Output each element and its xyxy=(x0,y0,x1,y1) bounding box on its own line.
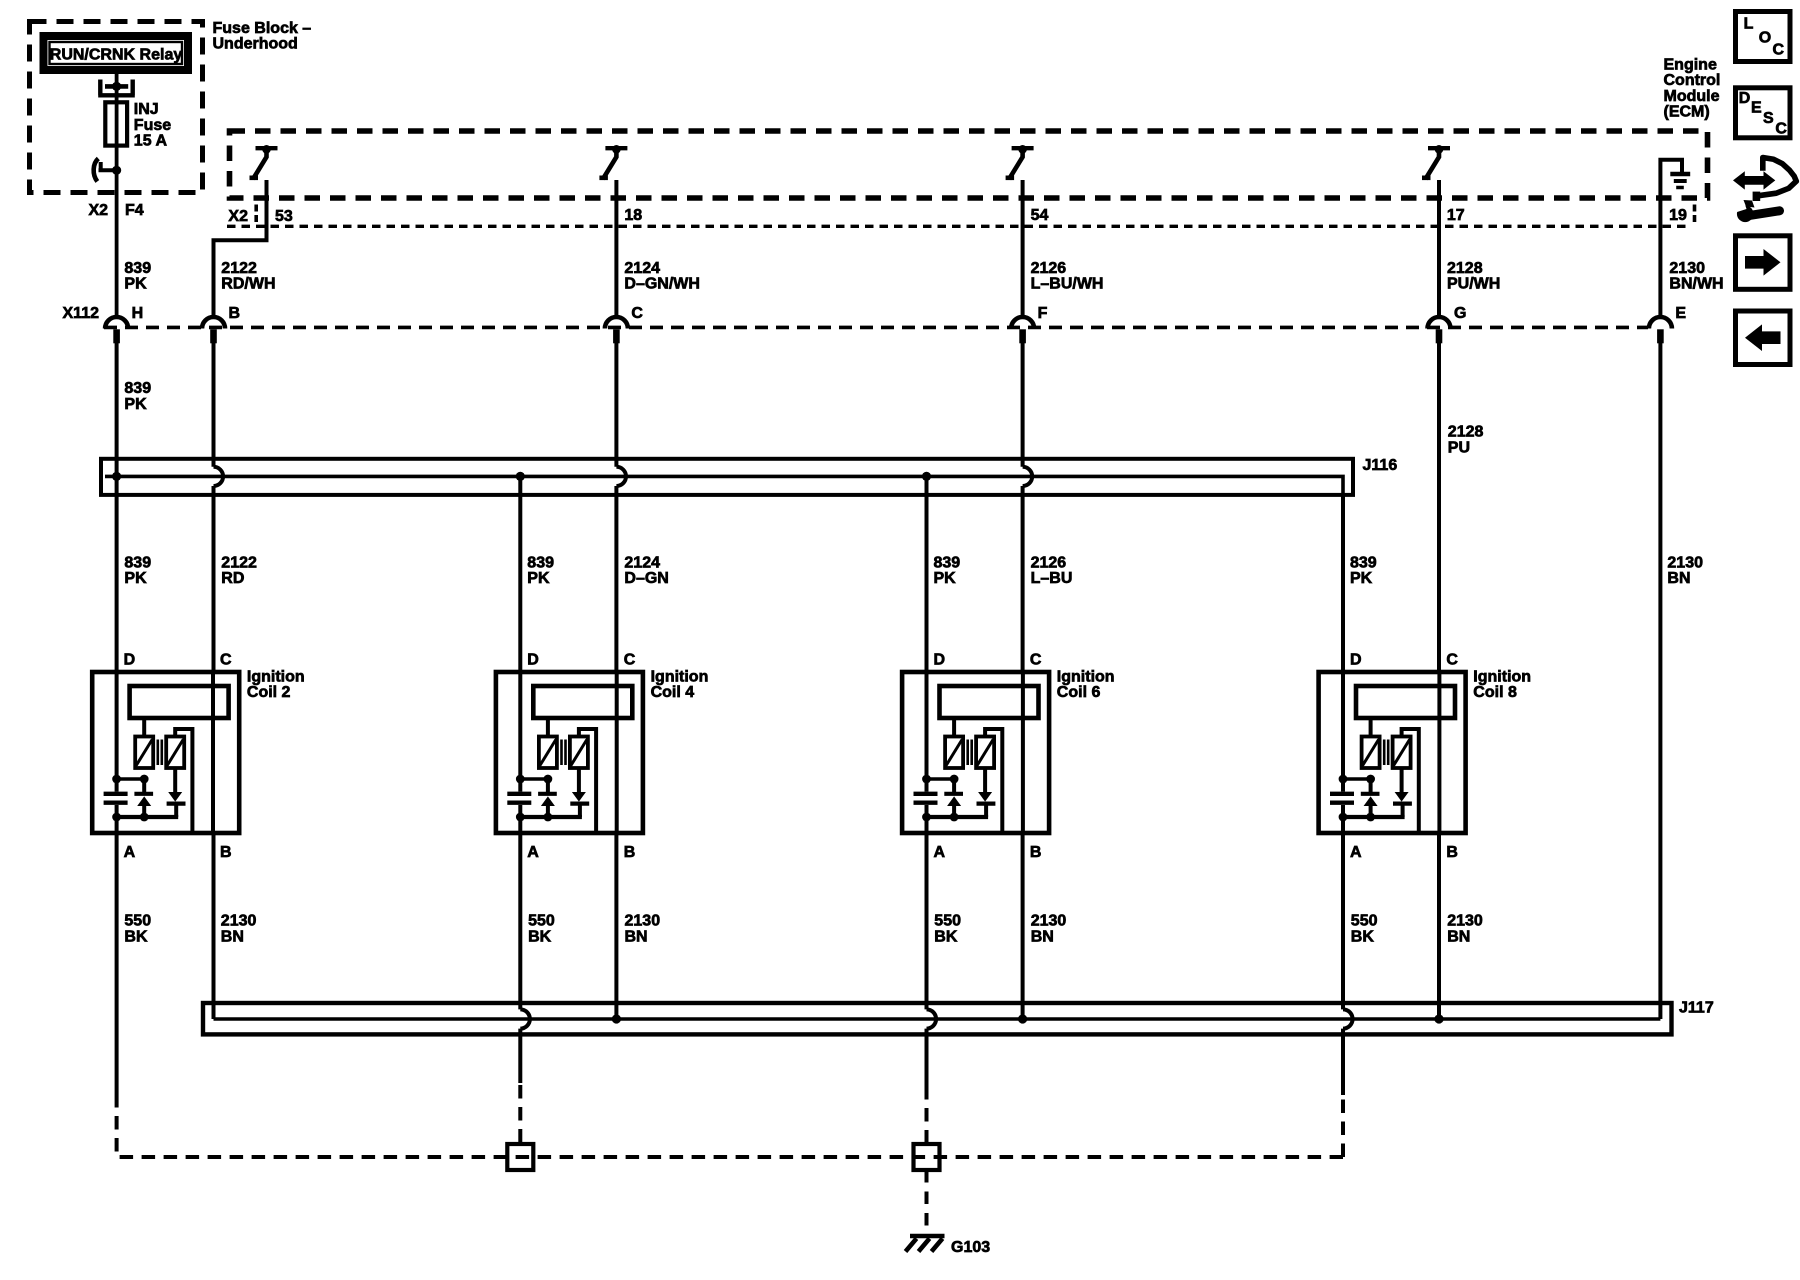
wire hop over splice J117 xyxy=(520,1009,530,1028)
splice square at coil4 ground xyxy=(507,1144,533,1170)
coil 4 diode 1 xyxy=(546,779,550,794)
Engine Control Module (ECM) dashed box xyxy=(230,131,1708,198)
svg-text:BK: BK xyxy=(124,929,148,946)
coil 2 capacitor xyxy=(104,794,128,803)
svg-text:839: 839 xyxy=(124,260,151,277)
connector separator dashes pin 19 xyxy=(1693,205,1697,223)
svg-text:Ignition: Ignition xyxy=(247,669,305,686)
junction dot coil4 tap at J116 xyxy=(516,472,525,481)
svg-text:PK: PK xyxy=(934,570,957,587)
wire fuse block to X112 pin H xyxy=(115,170,119,317)
coil 8 C-B wire through box xyxy=(1437,672,1441,833)
svg-text:2130: 2130 xyxy=(1669,260,1705,277)
svg-text:X112: X112 xyxy=(63,305,100,322)
svg-text:B: B xyxy=(1030,844,1042,861)
svg-text:INJ: INJ xyxy=(134,101,159,118)
coil 8 diode 1 xyxy=(1369,779,1373,794)
svg-text:Coil 6: Coil 6 xyxy=(1057,684,1101,701)
coil 4 secondary output route xyxy=(579,729,596,831)
svg-text:G: G xyxy=(1454,305,1466,322)
coil 2 diode 2 xyxy=(173,768,177,792)
wire 2124 D-GN/WH from pin 18 xyxy=(614,180,618,317)
svg-text:2126: 2126 xyxy=(1031,555,1067,572)
svg-text:F4: F4 xyxy=(125,202,144,219)
icon box left arrow xyxy=(1736,311,1791,365)
coil 4 capacitor xyxy=(507,794,531,803)
svg-text:C: C xyxy=(1773,42,1785,59)
svg-text:PU/WH: PU/WH xyxy=(1447,276,1500,293)
svg-text:BK: BK xyxy=(1351,929,1375,946)
svg-text:BK: BK xyxy=(528,929,552,946)
wire 2126 L-BU/WH from pin 54 xyxy=(1021,180,1025,317)
coil 6 C-B wire through box xyxy=(1021,672,1025,833)
Fuse Block - Underhood dashed box xyxy=(30,22,203,193)
svg-text:839: 839 xyxy=(527,555,554,572)
coil 8 D wire through box xyxy=(1341,672,1345,833)
coil 2 D wire through box xyxy=(115,672,119,833)
svg-text:BN/WH: BN/WH xyxy=(1669,276,1723,293)
coil 2 junction wire bottom xyxy=(115,815,179,819)
X112 connector terminal E xyxy=(1649,317,1672,329)
wire 839 PK J116 tap to coil4 D xyxy=(518,476,522,672)
svg-text:18: 18 xyxy=(624,207,642,224)
svg-text:Coil 4: Coil 4 xyxy=(651,684,695,701)
svg-text:PU: PU xyxy=(1448,440,1470,457)
svg-text:54: 54 xyxy=(1031,207,1049,224)
coil 6 capacitor xyxy=(914,794,938,803)
wire 839 PK pin H to splice J116 xyxy=(115,343,119,476)
coil 6 junction wire top xyxy=(927,777,955,781)
svg-text:839: 839 xyxy=(124,555,151,572)
splice J116 bus outline xyxy=(101,459,1353,495)
svg-text:Coil 2: Coil 2 xyxy=(247,684,291,701)
svg-text:Ignition: Ignition xyxy=(1473,669,1531,686)
svg-text:Control: Control xyxy=(1664,72,1721,89)
coil 6 secondary winding xyxy=(976,737,994,769)
svg-text:Fuse: Fuse xyxy=(134,117,171,134)
svg-text:PK: PK xyxy=(124,276,147,293)
wire 550 BK coil2 A down xyxy=(115,833,119,1094)
wire 2126 L-BU pin F down across J116 xyxy=(1021,343,1025,672)
coil 2 C-B wire through box xyxy=(211,672,215,833)
coil 4 module block xyxy=(533,686,632,718)
svg-text:D–GN/WH: D–GN/WH xyxy=(624,276,700,293)
coil 6 module block xyxy=(940,686,1039,718)
svg-text:839: 839 xyxy=(934,555,961,572)
svg-text:2124: 2124 xyxy=(624,555,660,572)
coil 6 diode 1 xyxy=(952,779,956,794)
svg-text:F: F xyxy=(1038,305,1048,322)
icon routing clip xyxy=(1755,158,1796,197)
svg-text:17: 17 xyxy=(1447,207,1465,224)
svg-text:S: S xyxy=(1763,110,1774,127)
coil 8 junction wire top xyxy=(1343,777,1371,781)
junction dot coil6 B at J117 xyxy=(1018,1014,1027,1023)
svg-text:2124: 2124 xyxy=(624,260,660,277)
svg-text:Underhood: Underhood xyxy=(213,36,298,53)
coil 2 module block xyxy=(130,686,229,718)
svg-text:D–GN: D–GN xyxy=(624,570,668,587)
wire 2130 BN/WH from pin 19 xyxy=(1658,198,1662,317)
svg-text:PK: PK xyxy=(124,396,147,413)
wire 2122 RD/WH from pin 53 xyxy=(214,180,267,317)
svg-text:2128: 2128 xyxy=(1448,424,1484,441)
coil 2 diode 1 xyxy=(142,779,146,794)
svg-text:19: 19 xyxy=(1669,207,1687,224)
svg-text:Ignition: Ignition xyxy=(1057,669,1115,686)
wire fuse to relay contact xyxy=(115,145,119,170)
wire hop over splice J116 xyxy=(1023,467,1033,486)
svg-text:J117: J117 xyxy=(1679,1000,1714,1017)
coil 2 core bars xyxy=(158,740,162,766)
icon box right arrow xyxy=(1736,236,1791,289)
coil 8 junction wire bottom xyxy=(1341,815,1405,819)
ignition coil 8 outer box xyxy=(1319,672,1466,833)
wire 2130 BN coil4 B to splice J117 xyxy=(614,833,618,1019)
ignition coil 6 outer box xyxy=(902,672,1049,833)
icon wrench xyxy=(1751,211,1780,216)
splice square at coil6 ground xyxy=(914,1144,940,1170)
coil 6 diode 2 xyxy=(983,768,987,792)
coil 8 core bars xyxy=(1384,740,1388,766)
wire relay to fuse xyxy=(115,74,119,102)
connector separator dashes pin 53 xyxy=(254,205,258,223)
svg-text:L–BU/WH: L–BU/WH xyxy=(1031,276,1104,293)
svg-text:A: A xyxy=(124,844,136,861)
coil 2 primary winding xyxy=(135,737,153,769)
svg-text:B: B xyxy=(220,844,232,861)
wire 2128 PU pin G down to coil 8 xyxy=(1437,343,1441,672)
svg-text:Fuse Block –: Fuse Block – xyxy=(213,20,312,37)
svg-text:Engine: Engine xyxy=(1664,56,1717,73)
svg-text:J116: J116 xyxy=(1363,457,1398,474)
wire hop over splice J117 xyxy=(927,1009,937,1028)
svg-text:2122: 2122 xyxy=(221,555,257,572)
coil 8 module block xyxy=(1356,686,1455,718)
icon box LOC xyxy=(1736,12,1791,62)
coil 4 C-B wire through box xyxy=(615,672,619,833)
svg-text:2130: 2130 xyxy=(625,913,661,930)
ECM driver switch for pin 18 xyxy=(605,146,627,150)
coil 6 D wire through box xyxy=(925,672,929,833)
coil 2 secondary winding xyxy=(166,737,184,769)
splice J116 wire xyxy=(105,476,1343,495)
junction dot H/839 at J116 xyxy=(112,472,121,481)
svg-text:BN: BN xyxy=(221,929,244,946)
coil 4 wire module to primary winding xyxy=(546,718,550,737)
X112 connector terminal C xyxy=(605,317,628,329)
wire 550 BK coil6 A down across J117 xyxy=(925,833,929,1086)
ECM driver switch for pin 17 xyxy=(1428,146,1450,150)
coil 4 primary winding xyxy=(539,737,557,769)
svg-text:839: 839 xyxy=(1350,555,1377,572)
wire 2122 RD pin B down across J116 xyxy=(212,343,216,672)
svg-text:839: 839 xyxy=(124,380,151,397)
svg-text:PK: PK xyxy=(527,570,550,587)
svg-text:(ECM): (ECM) xyxy=(1664,104,1710,121)
wire hop over splice J117 xyxy=(1343,1009,1353,1028)
svg-text:C: C xyxy=(1030,652,1042,669)
svg-text:B: B xyxy=(624,844,636,861)
svg-text:550: 550 xyxy=(1351,913,1378,930)
relay contact symbol xyxy=(112,166,121,175)
coil 8 wire module to primary winding xyxy=(1369,718,1373,737)
wire 2130 BN coil8 B to splice J117 xyxy=(1437,833,1441,1019)
svg-text:A: A xyxy=(527,844,539,861)
svg-text:C: C xyxy=(220,652,232,669)
svg-text:Ignition: Ignition xyxy=(651,669,709,686)
wire 550 BK coil8 A down across J117 xyxy=(1341,833,1345,1095)
svg-text:E: E xyxy=(1675,305,1686,322)
ignition coil 4 outer box xyxy=(496,672,643,833)
svg-text:D: D xyxy=(1350,652,1362,669)
svg-text:2128: 2128 xyxy=(1447,260,1483,277)
svg-text:D: D xyxy=(124,652,136,669)
fuse F4 INJ Fuse 15 A xyxy=(98,80,135,96)
coil 2 wire module to primary winding xyxy=(142,718,146,737)
icon box DESC xyxy=(1736,88,1791,138)
svg-text:2130: 2130 xyxy=(221,913,257,930)
svg-text:BN: BN xyxy=(1447,929,1470,946)
wire 2130 BN pin E down to splice J117 xyxy=(1658,343,1662,1019)
coil 4 junction wire bottom xyxy=(518,815,582,819)
svg-text:BN: BN xyxy=(625,929,648,946)
svg-text:X2: X2 xyxy=(89,202,109,219)
coil 4 junction wire top xyxy=(520,777,548,781)
X112 connector terminal G xyxy=(1428,317,1451,329)
coil 8 secondary output route xyxy=(1402,729,1419,831)
svg-text:PK: PK xyxy=(124,570,147,587)
X112 connector dashed line xyxy=(104,326,1648,330)
coil 8 primary winding xyxy=(1362,737,1380,769)
svg-text:A: A xyxy=(934,844,946,861)
coil 6 core bars xyxy=(968,740,972,766)
wire 839 PK J116 end to coil8 D xyxy=(1341,495,1345,672)
wire 839 PK J116 tap to coil6 D xyxy=(925,476,929,672)
svg-text:RD: RD xyxy=(221,570,244,587)
wire 2130 BN coil2 B to splice J117 xyxy=(212,833,216,1019)
svg-text:C: C xyxy=(624,652,636,669)
svg-text:G103: G103 xyxy=(951,1239,990,1256)
splice J117 bus outline xyxy=(203,1003,1672,1034)
svg-text:15 A: 15 A xyxy=(134,133,168,150)
coil 8 capacitor xyxy=(1330,794,1354,803)
ECM internal ground at pin 19 xyxy=(1660,160,1682,198)
svg-text:E: E xyxy=(1751,99,1762,116)
dashed wire coil2 ground run xyxy=(117,1094,1343,1157)
svg-text:B: B xyxy=(1446,844,1458,861)
svg-text:PK: PK xyxy=(1350,570,1373,587)
coil 4 core bars xyxy=(562,740,566,766)
svg-text:53: 53 xyxy=(275,208,293,225)
svg-text:B: B xyxy=(229,305,241,322)
coil 8 diode 2 xyxy=(1400,768,1404,792)
icon double arrow xyxy=(1733,171,1775,189)
svg-text:O: O xyxy=(1759,29,1771,46)
svg-text:X2: X2 xyxy=(228,208,248,225)
wire 839 PK J116 to coil2 D xyxy=(115,476,119,672)
svg-text:BN: BN xyxy=(1031,929,1054,946)
splice J117 wire xyxy=(214,1017,1661,1021)
wire 2124 D-GN pin C down across J116 xyxy=(614,343,618,672)
wire hop over splice J116 xyxy=(616,467,626,486)
svg-text:RUN/CRNK Relay: RUN/CRNK Relay xyxy=(50,47,183,64)
svg-text:L–BU: L–BU xyxy=(1031,570,1073,587)
ground G103 xyxy=(910,1234,945,1239)
ignition coil 2 outer box xyxy=(92,672,239,833)
svg-text:2126: 2126 xyxy=(1031,260,1067,277)
dashed wire coil6 A to splice square xyxy=(925,1086,929,1144)
ECM driver switch for pin 54 xyxy=(1012,146,1034,150)
wire 2128 PU/WH from pin 17 xyxy=(1437,180,1441,317)
svg-text:Module: Module xyxy=(1664,88,1720,105)
coil 6 junction wire bottom xyxy=(925,815,989,819)
X112 connector terminal B xyxy=(202,317,225,329)
svg-text:C: C xyxy=(1775,121,1787,138)
ECM connector face dashed line xyxy=(227,225,1690,228)
svg-text:D: D xyxy=(1739,90,1751,107)
svg-text:A: A xyxy=(1350,844,1362,861)
svg-text:550: 550 xyxy=(528,913,555,930)
coil 4 secondary winding xyxy=(570,737,588,769)
svg-text:D: D xyxy=(527,652,539,669)
wire 2130 BN coil6 B to splice J117 xyxy=(1021,833,1025,1019)
junction dot coil8 B at J117 xyxy=(1434,1014,1443,1023)
coil 6 wire module to primary winding xyxy=(952,718,956,737)
coil 6 secondary output route xyxy=(985,729,1002,831)
svg-text:C: C xyxy=(1446,652,1458,669)
wire hop over splice J116 xyxy=(214,467,224,486)
coil 4 D wire through box xyxy=(518,672,522,833)
ECM driver switch for pin 53 xyxy=(256,146,278,150)
svg-text:2130: 2130 xyxy=(1031,913,1067,930)
svg-text:550: 550 xyxy=(124,913,151,930)
dashed wire coil4 A to splice square xyxy=(518,1085,522,1144)
coil 8 secondary winding xyxy=(1393,737,1411,769)
svg-text:2122: 2122 xyxy=(221,260,257,277)
svg-text:550: 550 xyxy=(934,913,961,930)
svg-text:2130: 2130 xyxy=(1667,555,1703,572)
svg-text:L: L xyxy=(1744,16,1754,33)
svg-text:H: H xyxy=(132,305,144,322)
svg-text:D: D xyxy=(934,652,946,669)
dashed wire to ground G103 xyxy=(925,1170,929,1233)
wire 550 BK coil4 A down across J117 xyxy=(518,833,522,1083)
X112 connector terminal H xyxy=(105,317,128,329)
coil 2 secondary output route xyxy=(175,729,192,831)
X112 connector terminal F xyxy=(1011,317,1034,329)
junction dot coil4 B at J117 xyxy=(612,1014,621,1023)
coil 2 junction wire top xyxy=(117,777,145,781)
coil 6 primary winding xyxy=(945,737,963,769)
junction dot coil6 tap at J116 xyxy=(922,472,931,481)
relay RUN/CRNK Relay xyxy=(44,36,189,70)
svg-text:2130: 2130 xyxy=(1447,913,1483,930)
svg-text:Coil 8: Coil 8 xyxy=(1473,684,1517,701)
svg-text:BK: BK xyxy=(934,929,958,946)
svg-text:BN: BN xyxy=(1667,570,1690,587)
svg-text:RD/WH: RD/WH xyxy=(221,276,275,293)
svg-text:C: C xyxy=(631,305,643,322)
coil 4 diode 2 xyxy=(577,768,581,792)
